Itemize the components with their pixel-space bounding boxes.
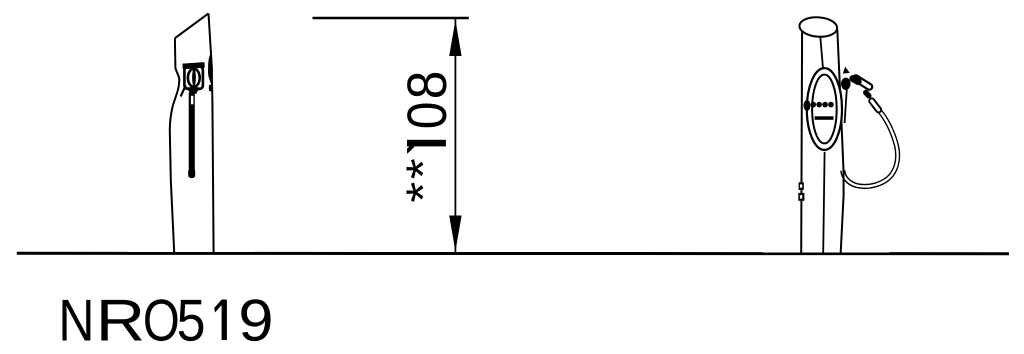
left mechanism: top bar [182, 62, 204, 69]
plate dot row [811, 102, 834, 108]
right pole seam lower [823, 152, 824, 253]
pole clip upper (left edge) [799, 182, 804, 190]
left mechanism: trapezoid hub [187, 87, 200, 94]
svg-text:9: 9 [238, 288, 273, 354]
left mechanism: stem rod [189, 93, 195, 172]
plate left edge blob [804, 100, 811, 111]
right pole right edge [837, 30, 843, 253]
svg-text:R: R [96, 288, 145, 354]
left mechanism: stem white notch [191, 96, 194, 105]
svg-text:0: 0 [396, 102, 458, 130]
plate slot bar [815, 116, 834, 120]
dimension vertical line [454, 19, 456, 252]
digit 1 of NRO519 (custom) [214, 300, 227, 340]
left mechanism: wheel inner slot [192, 69, 196, 87]
left mechanism: wheel ring [188, 69, 200, 87]
right pole seam upper [820, 37, 823, 69]
dimension arrow up [449, 20, 461, 56]
label NRO519 [58, 288, 205, 354]
right pole left edge [800, 31, 803, 253]
spray gun blob [841, 78, 851, 90]
svg-text:8: 8 [396, 71, 458, 100]
nozzle connector [866, 93, 869, 96]
nozzle start dark band [853, 79, 858, 82]
left mechanism: housing outline [184, 67, 203, 89]
hose loop double line [843, 111, 898, 186]
spray gun stem line [845, 89, 847, 123]
svg-text:*: * [397, 182, 450, 203]
left mechanism: diagonal stroke [181, 85, 186, 96]
hose capsule segment [872, 101, 879, 110]
left mechanism: edge-on plate lens [208, 55, 213, 85]
spray gun flag [843, 67, 850, 74]
left mechanism: lens lower blob [209, 85, 213, 92]
nozzle capsule [856, 78, 870, 87]
digit 1 of 108 (custom narrow-flag glyph) [407, 140, 446, 154]
right pole top ellipse [799, 16, 838, 38]
dimension arrow down [449, 216, 461, 252]
left mechanism: stem bottom cap [188, 169, 195, 179]
svg-text:N: N [58, 288, 94, 354]
svg-text:O: O [143, 288, 180, 354]
ground line [17, 252, 1009, 255]
dimension extension line (top horizontal) [313, 17, 469, 19]
left post outline [170, 13, 214, 252]
faucet plate outer oval [807, 68, 842, 150]
faucet plate inner oval [812, 75, 837, 144]
svg-text:*: * [397, 158, 450, 179]
dimension text **108 [396, 71, 458, 203]
pole clip lower (left edge) [798, 193, 804, 201]
svg-text:5: 5 [177, 288, 206, 354]
